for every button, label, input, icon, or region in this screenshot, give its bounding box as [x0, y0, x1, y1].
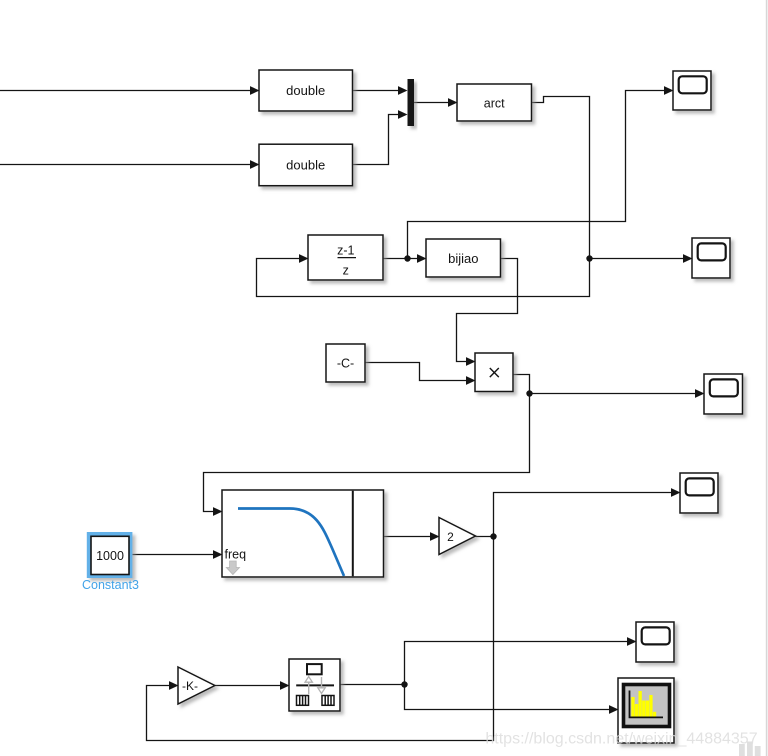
product block x [475, 353, 513, 392]
wire input1 to double1 [0, 86, 260, 95]
wire junction down feedback to gainK [147, 537, 494, 741]
wire junction to scope3 [530, 389, 705, 398]
svg-text:https://blog.csdn.net/weixin_4: https://blog.csdn.net/weixin_44884357 [485, 731, 757, 748]
scope Scope1 [673, 71, 711, 110]
mux Mux [408, 79, 415, 126]
svg-text:z: z [343, 263, 349, 277]
node junction dot [490, 533, 496, 539]
scope Scope4 [680, 473, 718, 513]
scope Scope3 [704, 374, 743, 414]
wire bijiao to product in1 [457, 259, 518, 366]
wire Constant3 to filter freq [133, 550, 223, 559]
wire z-out node up to scope1 [408, 86, 674, 258]
node junction dot [401, 681, 407, 687]
svg-text:z-1: z-1 [337, 243, 354, 257]
buffer block [289, 659, 340, 711]
discrete transfer block z-1/z [308, 235, 383, 280]
gain 2 [439, 518, 476, 555]
svg-text:1000: 1000 [96, 549, 124, 563]
data type block double2 [259, 144, 353, 186]
constant -C- [326, 344, 365, 382]
wire double1 to mux in1 [353, 86, 408, 95]
wire gainK to buffer [215, 681, 290, 690]
wire gain2 to junction [476, 536, 494, 538]
node junction dot [586, 255, 592, 261]
constant Constant3 (selected) [82, 532, 139, 592]
wire z-1/z to bijiao [383, 254, 427, 263]
svg-text:-K-: -K- [182, 679, 198, 693]
wire filter to gain2 [384, 532, 440, 541]
scope Scope5 [636, 622, 674, 662]
filter block with freq port [222, 490, 384, 577]
canvas right edge line [766, 0, 768, 756]
wire mux to arct [414, 98, 458, 107]
spectrum scope B-FFT [618, 678, 674, 743]
node junction dot [526, 390, 532, 396]
node junction dot [404, 255, 410, 261]
svg-text:arct: arct [484, 96, 505, 110]
wire junction up to scope5 [405, 637, 637, 684]
data type block double1 [259, 70, 353, 111]
wire input2 to double2 [0, 160, 260, 169]
wire arct output down to junction [532, 97, 590, 259]
svg-text:2: 2 [447, 530, 454, 544]
gain -K- [178, 667, 215, 704]
block arct [457, 84, 532, 121]
scope Scope2 [692, 238, 730, 278]
watermark text [485, 731, 760, 756]
wire double2 to mux in2 [353, 110, 408, 164]
block bijiao [426, 239, 501, 277]
wire junction down to filter input [204, 394, 530, 516]
wire junction feedback to z-1/z input [257, 254, 590, 296]
svg-text:Constant3: Constant3 [82, 578, 139, 592]
svg-text:freq: freq [225, 548, 247, 562]
svg-text:bijiao: bijiao [448, 251, 478, 266]
wire junction to scope2 [590, 254, 693, 263]
wire product output to junction [513, 375, 530, 394]
wire -C- to product in2 [365, 363, 476, 385]
wire junction up to scope4 [494, 488, 681, 536]
svg-text:double: double [286, 83, 325, 98]
svg-text:-C-: -C- [337, 357, 354, 371]
wire buffer to junction [340, 684, 405, 686]
wire junction down to spectrum scope [405, 685, 619, 714]
svg-text:double: double [286, 158, 325, 173]
